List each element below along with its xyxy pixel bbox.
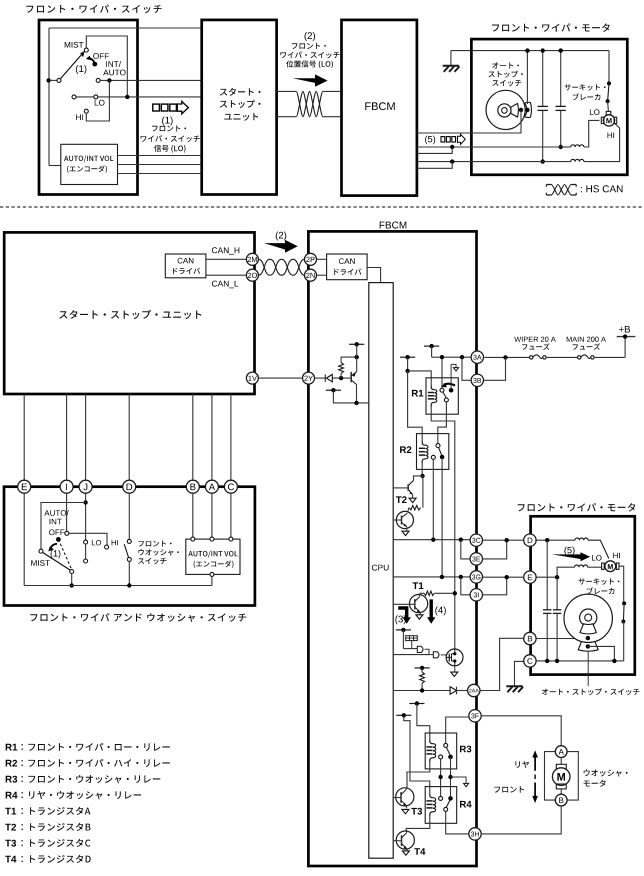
gate buffer 1 — [417, 646, 423, 652]
terminal A — [205, 480, 218, 493]
terminal 2Y — [303, 372, 315, 384]
wires encoder to unit — [118, 155, 203, 157]
sensor box — [406, 636, 418, 641]
wire fuse to +B — [594, 356, 625, 358]
encoder box lower — [186, 539, 240, 574]
wire tick down to R2 coil — [408, 371, 423, 441]
capacitor C2 top — [560, 51, 562, 107]
wire diode to junction — [332, 377, 351, 379]
label LO — [95, 100, 105, 106]
wire T2 base from CPU — [393, 487, 408, 489]
auto stop contact follower — [525, 102, 532, 117]
label CAN_H — [212, 247, 239, 255]
caption wiper and washer switch — [30, 613, 246, 622]
relay R1 coil — [431, 386, 437, 407]
terminal D motor — [524, 534, 536, 546]
label T1 — [413, 582, 424, 589]
terminal 3G — [470, 571, 482, 583]
junction dots auto stop — [519, 108, 523, 112]
diode 2AA — [450, 687, 456, 695]
front wiper motor title — [492, 23, 610, 31]
wire FBCM pair jog 2 — [417, 162, 452, 169]
label AUTO/INT — [44, 510, 68, 516]
wire 3C line — [393, 539, 470, 541]
label HI top — [608, 133, 615, 139]
relay R3 contact — [444, 743, 448, 747]
HS CAN legend symbol — [546, 185, 551, 196]
wire 3E to 3C line — [461, 540, 470, 559]
label T4 — [414, 848, 425, 855]
wire auto stop contact to rail — [526, 51, 528, 104]
wire follower to C line — [588, 646, 615, 661]
legend T1 — [5, 808, 16, 815]
start stop unit box top — [202, 20, 277, 195]
auto stop cam lower — [564, 594, 612, 642]
wire between fuses — [546, 356, 578, 358]
resistor pullup 2Y — [340, 373, 342, 378]
label R3 — [460, 746, 471, 753]
label (2) position signal — [305, 32, 316, 41]
label HI — [76, 114, 83, 120]
legend R3 — [6, 776, 18, 783]
washer switch contacts — [127, 539, 131, 543]
transistor Q internal 2Y — [356, 344, 358, 371]
terminal 3H — [469, 828, 481, 840]
terminal 2M — [246, 253, 258, 265]
lever dashed lower — [58, 539, 71, 569]
terminal 2AA — [468, 684, 480, 696]
label rear — [515, 761, 529, 768]
bold arrow (3) — [398, 606, 411, 624]
wire D to washer switch — [128, 493, 130, 539]
opto diode 2Y input — [315, 377, 326, 379]
wire R4 contact to 3H — [446, 811, 469, 834]
wiper motor M lower — [605, 561, 616, 572]
start stop unit box lower — [4, 232, 254, 394]
wire tick to R4 coil — [404, 715, 430, 793]
wire inner left loop — [49, 27, 202, 29]
terminal J — [79, 480, 92, 493]
power tick 2AA — [415, 667, 430, 669]
CPU box — [369, 283, 393, 859]
resistor 2AA — [421, 668, 423, 672]
auto stop switch cam — [486, 90, 525, 129]
legend T2 — [5, 824, 16, 831]
wire CPU to gate — [393, 654, 429, 656]
FBCM box lower — [308, 231, 476, 866]
wire M to breaker — [619, 566, 624, 601]
resistor T2 to driver — [422, 476, 424, 508]
wire 3C to D — [483, 539, 524, 541]
wire unit to C — [230, 394, 232, 480]
curved arrow (1) lower — [51, 544, 57, 548]
wire 3F to washer A — [481, 716, 561, 746]
label MIST — [65, 42, 84, 48]
inductor HI — [571, 159, 584, 161]
wire 3B to fuse line — [484, 357, 506, 380]
relay R4 box — [425, 787, 457, 824]
encoder ground wire — [210, 572, 214, 576]
curved arrow (1) — [89, 58, 95, 62]
wire R1 contact lower to R2 — [438, 402, 447, 444]
wire CAN H — [206, 258, 247, 260]
switch contact HI lower — [105, 545, 109, 549]
label (1) — [76, 65, 87, 74]
switch contact LO lower — [84, 540, 88, 544]
wire auto stop to FBCM — [417, 110, 521, 133]
switch contact MIST lower — [39, 549, 43, 553]
wire 3G line — [393, 576, 470, 578]
capacitor E to C line — [556, 577, 558, 610]
wire FBCM pair jog 1 — [417, 147, 452, 153]
wire unit to E — [23, 394, 25, 480]
wire CAN L — [206, 274, 247, 276]
lever pivot lower — [70, 570, 74, 574]
signal arrow (5) — [425, 136, 435, 145]
wire unit to D — [128, 394, 130, 480]
terminal 3F — [469, 710, 481, 722]
relay R1 box — [426, 378, 458, 414]
auto/int volume encoder box — [61, 144, 118, 184]
HS CAN legend text — [581, 185, 623, 192]
wiper washer switch box — [4, 487, 255, 606]
lever solid lower — [43, 553, 70, 571]
label R4 — [460, 801, 472, 808]
label R1 — [412, 390, 423, 397]
wire unit to B — [192, 394, 194, 480]
wire unit to I — [66, 394, 68, 480]
wire 3I to 3G line — [461, 577, 470, 595]
wire C to encoder — [230, 493, 232, 537]
power tick 2Y block — [349, 343, 364, 345]
power tick R3 — [409, 703, 424, 705]
legend R1 — [6, 744, 18, 751]
label INT/AUTO — [106, 61, 121, 67]
transistor T2 upper — [414, 476, 423, 481]
switch contact INT/AUTO — [96, 78, 100, 82]
ground symbol top — [450, 51, 452, 66]
relay R1 contact — [441, 359, 443, 388]
wire R3 coil to T3 — [407, 762, 430, 788]
terminal A washer — [555, 746, 567, 758]
terminal 2O — [246, 269, 258, 281]
fuse MAIN 200A — [567, 337, 606, 342]
switch common contact — [46, 78, 50, 82]
wire R3 contacts link — [440, 759, 442, 797]
wire LO row to unit — [76, 96, 202, 98]
twisted pair wires unit to FBCM — [277, 90, 297, 92]
terminal C motor — [524, 655, 536, 667]
wire driver to CPU — [367, 268, 381, 283]
label front wiper switch title — [26, 5, 161, 14]
wire 3B jog inside — [462, 357, 471, 380]
label (1) lower — [51, 550, 61, 558]
circuit breaker top — [565, 84, 606, 91]
label OFF lower — [49, 529, 64, 535]
wire R4 coil to T4 — [406, 816, 430, 832]
twisted pair CAN — [258, 259, 304, 275]
bold arrow (5) lower — [552, 552, 590, 561]
transistor T1 circled — [410, 595, 428, 613]
washer motor M — [560, 758, 562, 765]
relay R4 contact — [439, 796, 443, 800]
gate buffer 2 — [433, 652, 439, 658]
+B terminal — [617, 336, 636, 338]
wire B to auto stop — [586, 637, 588, 639]
label (3) — [395, 615, 406, 624]
terminal B — [186, 480, 199, 493]
wire 2AA... B line — [536, 638, 585, 640]
wire 3G to E — [483, 576, 524, 578]
wire J to MIST — [85, 493, 87, 540]
label LO top — [590, 109, 600, 115]
switch position OFF dot — [92, 62, 97, 67]
label OFF — [93, 53, 109, 59]
wire 1V to 2Y — [258, 377, 302, 379]
terminal B washer — [555, 794, 567, 806]
wire MIST top loop — [86, 36, 127, 96]
terminal 3I — [470, 589, 482, 601]
power tick sensor — [396, 629, 411, 631]
mosfet Q1 circled — [446, 649, 463, 666]
common wire lower switch — [23, 493, 25, 585]
wire ground rail to motor — [451, 50, 609, 52]
wire 2P to driver — [317, 258, 327, 260]
capacitor C1 top — [542, 51, 544, 107]
terminal E — [18, 480, 31, 493]
wire R2 common to 3G — [441, 457, 443, 577]
ground symbol lower — [506, 685, 522, 687]
sensor network — [402, 630, 404, 649]
wire unit to J — [85, 394, 87, 480]
label HI motor lower — [613, 553, 620, 559]
wire 2AA line — [393, 690, 450, 692]
auto stop dots lower — [586, 636, 590, 640]
label T2 — [396, 496, 407, 503]
legend T4 — [5, 856, 16, 863]
power tick R1 coil — [400, 356, 415, 358]
washer motor frame — [545, 752, 556, 801]
legend R2 — [6, 760, 17, 767]
CAN driver box unit — [165, 254, 206, 278]
wire R2 coil to T2 — [421, 463, 423, 476]
bold arrow (2) lower — [264, 240, 298, 253]
wire C line — [536, 660, 624, 662]
legend R4 — [6, 792, 18, 799]
wire E line to inductor — [536, 576, 557, 578]
switch lever arm — [61, 54, 83, 79]
relay R4 coil — [430, 794, 436, 817]
circuit breaker label lower — [579, 578, 620, 585]
label T3 — [411, 808, 422, 815]
wire washer B to 3H — [481, 806, 561, 834]
label HI lower — [112, 540, 118, 545]
wire R1 coil bottom jog — [431, 407, 455, 650]
CAN driver box FBCM — [327, 254, 368, 280]
label MIST lower — [31, 560, 50, 566]
terminal D — [123, 480, 136, 493]
power tick R4 — [396, 714, 411, 716]
switch contact MIST — [84, 48, 88, 52]
T1 collector resistor — [419, 593, 421, 596]
relay R3 box — [425, 733, 457, 769]
terminal 3A — [471, 351, 483, 363]
terminal 3E — [470, 553, 482, 565]
terminal B motor — [524, 632, 536, 644]
label front dir — [494, 786, 524, 793]
switch contact HI — [84, 109, 88, 113]
wire 3A line — [432, 356, 471, 358]
dashed separator — [0, 206, 644, 208]
wire INT/AUTO to unit — [100, 79, 202, 81]
power tick R1 — [424, 345, 439, 347]
relay R3 coil — [430, 740, 436, 763]
OFF position dot lower — [56, 537, 61, 542]
wire tick to 3A line — [431, 346, 433, 357]
FBCM label lower — [380, 222, 407, 229]
terminal C — [224, 480, 237, 493]
wire 3I bypass — [483, 577, 507, 595]
wire FBCM to motor LO — [417, 146, 561, 148]
relay R2 box — [417, 434, 449, 470]
front wiper motor box top — [471, 39, 627, 175]
wire 3E bypass — [483, 540, 507, 559]
label (4) — [435, 606, 446, 615]
wiper motor M top — [603, 115, 614, 126]
wire tick to R1 coil — [407, 357, 409, 371]
bold arrow (4) — [427, 599, 435, 623]
wire tick to R3 coil — [417, 704, 430, 740]
wire B to encoder — [192, 493, 194, 537]
inductor LO — [561, 146, 571, 148]
label washer motor — [584, 769, 628, 776]
relay R2 contact — [436, 444, 440, 448]
capacitor D to C line — [546, 540, 548, 610]
terminal 3B — [471, 374, 483, 386]
legend T3 — [5, 840, 16, 847]
T1 base from CPU — [393, 603, 415, 605]
auto stop switch label lower — [542, 688, 640, 695]
fuse WIPER 20A — [514, 337, 556, 342]
auto stop follower lower — [578, 642, 598, 652]
R1 armature arrow — [444, 384, 456, 386]
terminal 2P — [305, 253, 317, 265]
direction arrows — [532, 750, 538, 757]
terminal 2N — [305, 269, 317, 281]
label LO lower — [92, 540, 101, 545]
terminal 1V — [246, 372, 258, 384]
label R2 — [400, 446, 411, 453]
switch contact LO row — [72, 95, 76, 99]
wire FBCM to motor HI — [417, 161, 571, 163]
terminal I — [60, 480, 73, 493]
wire 2Y block to CPU — [333, 390, 368, 403]
wire D line inductor — [536, 539, 575, 541]
front wiper motor box lower — [531, 516, 635, 674]
ground wire from C — [515, 661, 524, 685]
auto stop switch label — [492, 62, 519, 68]
wire 3A to fuses — [484, 356, 529, 358]
wire 2N to driver — [317, 274, 327, 276]
label (5) lower — [564, 547, 574, 556]
terminal 3C — [470, 534, 482, 546]
ground tick 2Y block — [326, 389, 341, 391]
transistor T4 circled — [396, 831, 414, 849]
label front washer switch — [138, 541, 171, 547]
front wiper motor title lower — [518, 503, 636, 511]
wire I to OFF — [66, 493, 68, 531]
mosfet source ground — [454, 666, 456, 672]
circuit breaker lower — [622, 601, 626, 605]
wire R2 contact to 3C — [432, 459, 434, 539]
label CAN_L — [212, 281, 238, 289]
T2 driver base from CPU — [393, 519, 401, 521]
transistor T2 driver circled — [396, 511, 413, 528]
auto stop leader line — [587, 652, 589, 686]
switch contact OFF lower — [65, 531, 69, 535]
T1 emitter ground — [419, 613, 421, 615]
terminal E motor — [524, 571, 536, 583]
wire 3F internal — [446, 717, 469, 743]
wire HI jog — [86, 80, 109, 121]
transistor T3 circled — [396, 788, 414, 806]
front wiper switch box — [39, 20, 138, 195]
wire 2AA to motor B — [480, 638, 524, 690]
relay R2 coil — [422, 441, 428, 463]
wire OFF to HI contact — [69, 533, 107, 545]
wire gate to mosfet — [441, 654, 447, 656]
FBCM box top — [342, 20, 417, 196]
wire unit to A — [211, 394, 213, 480]
label LO motor lower — [592, 555, 602, 561]
label (2) lower — [276, 232, 287, 241]
bold arrow (2) — [293, 74, 328, 86]
wire A to encoder — [211, 493, 213, 537]
signal arrow (1) front wiper switch signal LO — [153, 104, 160, 111]
